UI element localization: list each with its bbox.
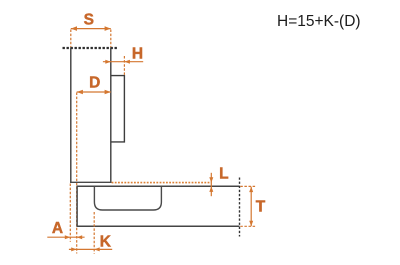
dimension H left arrow	[105, 60, 111, 64]
dimension K witness line	[93, 212, 95, 254]
dimension T bottom arrow	[249, 221, 253, 227]
dimension A left arrow	[65, 235, 71, 239]
dimension S right arrow	[105, 26, 111, 31]
dimension T bottom witness line	[240, 225, 256, 227]
door break dashed line	[239, 178, 241, 237]
dimension D line	[77, 91, 111, 93]
dimension H right arrow	[124, 60, 129, 64]
svg-text:A: A	[52, 220, 63, 237]
door bottom edge	[77, 225, 239, 227]
dimension S right witness line	[110, 30, 112, 48]
svg-text:H=15+K-(D): H=15+K-(D)	[277, 13, 361, 30]
dimension L top arrow	[209, 177, 213, 183]
step block (profile)	[111, 76, 125, 142]
svg-text:K: K	[100, 233, 112, 250]
side panel right edge	[110, 47, 112, 183]
hinge cup bore	[94, 186, 161, 210]
dimension K label	[100, 233, 112, 250]
svg-text:T: T	[256, 199, 266, 216]
dimension A right arrow	[77, 235, 83, 239]
dimension T top witness line	[240, 185, 256, 187]
dimension T label	[256, 199, 266, 216]
dimension L line	[210, 173, 212, 196]
dimension A witness line	[69, 184, 71, 242]
dimension T top arrow	[249, 187, 253, 193]
dimension D witness line (long, down to K)	[76, 93, 78, 254]
svg-text:S: S	[84, 11, 94, 28]
dimension K right arrow	[94, 247, 100, 251]
dimension S line	[71, 28, 111, 30]
dimension D label	[89, 75, 100, 92]
panel bottom level dotted line	[112, 182, 212, 184]
svg-text:L: L	[219, 165, 228, 182]
dimension K line	[69, 248, 112, 250]
dimension D left arrow	[77, 90, 83, 95]
dimension A label	[52, 220, 63, 237]
dimension S left arrow	[71, 26, 77, 31]
dimension S label	[84, 11, 94, 28]
dimension D right arrow	[105, 90, 111, 95]
dimension T line	[250, 187, 252, 227]
side panel bottom cap	[70, 181, 111, 183]
dimension S left witness line	[70, 30, 72, 48]
door left end face	[76, 186, 78, 227]
formula H=15+K-(D)	[277, 13, 361, 30]
svg-text:D: D	[89, 75, 100, 92]
dimension H label	[132, 46, 143, 63]
dimension L bottom arrow	[209, 186, 213, 192]
dimension H witness line	[123, 56, 125, 75]
dimension A line	[47, 236, 84, 238]
door top edge	[77, 185, 239, 187]
cabinet top dotted line	[63, 47, 119, 49]
dimension L label	[219, 165, 228, 182]
svg-text:H: H	[132, 46, 143, 63]
dimension K left arrow	[71, 247, 77, 251]
side panel left edge	[70, 47, 72, 183]
dimension H line	[103, 61, 143, 63]
